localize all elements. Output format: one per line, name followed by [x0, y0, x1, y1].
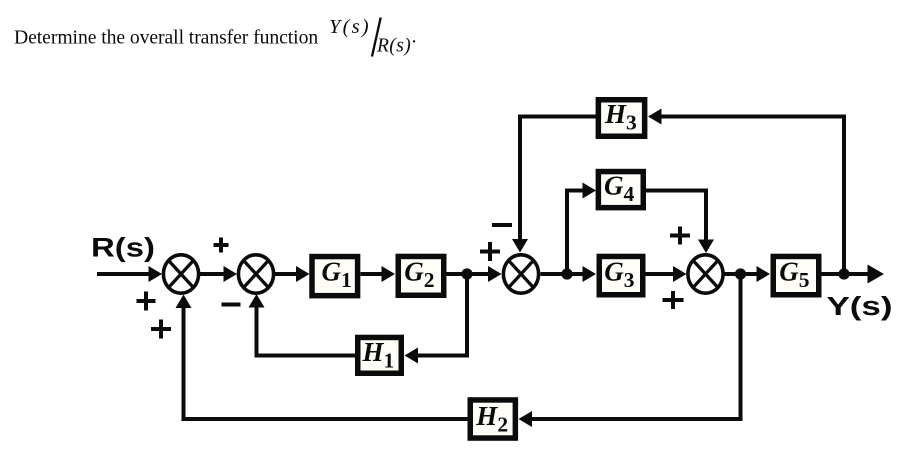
svg-text:Determine the overall transfer: Determine the overall transfer function	[14, 26, 318, 48]
svg-text:R(s): R(s)	[376, 36, 411, 57]
svg-text:.: .	[412, 26, 417, 48]
svg-text:Y(s): Y(s)	[827, 293, 893, 321]
svg-text:Y(s): Y(s)	[329, 16, 371, 38]
svg-text:R(s): R(s)	[91, 232, 155, 262]
